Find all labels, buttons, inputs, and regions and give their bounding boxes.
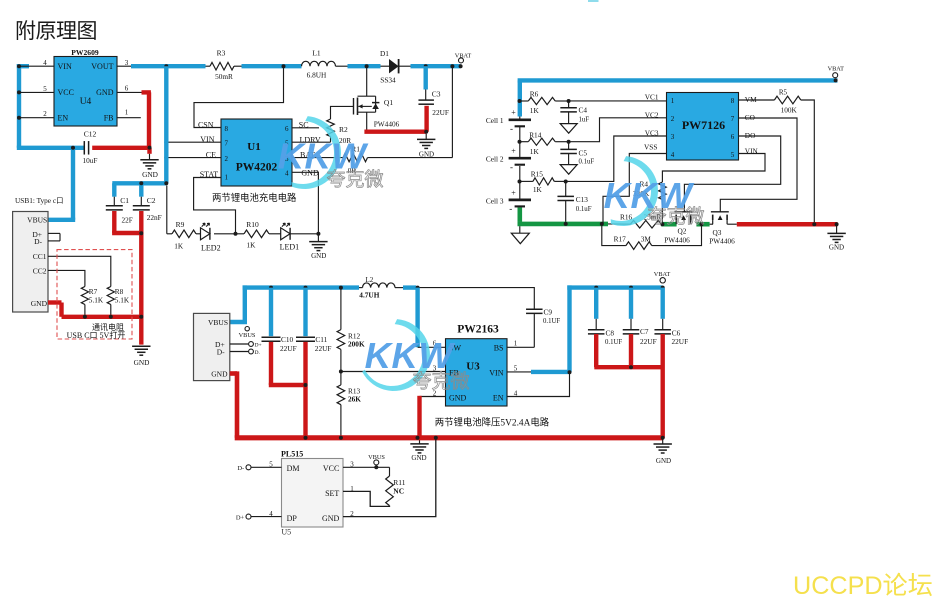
node gnd end: [835, 222, 839, 226]
svg-text:C7: C7: [640, 327, 649, 336]
resistor R13 26K: [337, 372, 361, 438]
resistor R16 25mR: [620, 212, 661, 228]
svg-text:FB: FB: [104, 114, 114, 123]
transistor Q2 PW4406: [664, 212, 692, 245]
svg-text:VC3: VC3: [645, 128, 659, 137]
wire BS stub: [507, 346, 534, 348]
inductor L1 6.8UH: [302, 49, 336, 80]
svg-text:PW2609: PW2609: [71, 48, 99, 57]
wire VBUS vertical left: [17, 64, 85, 220]
capacitor C6 22UF: [654, 288, 688, 438]
resistor R12 200K: [337, 288, 365, 372]
wire STAT route: [194, 178, 236, 234]
node SW tap: [416, 286, 420, 290]
svg-text:3M: 3M: [641, 234, 652, 243]
svg-text:VBUS: VBUS: [368, 454, 385, 461]
svg-text:+: +: [511, 108, 516, 117]
capacitor C12 10uF: [82, 130, 97, 165]
svg-text:U4: U4: [80, 97, 92, 107]
svg-text:GND: GND: [311, 252, 326, 260]
svg-text:6: 6: [125, 84, 129, 92]
svg-text:DP: DP: [287, 514, 298, 523]
node C12 blue tap: [71, 146, 75, 150]
svg-text:10uF: 10uF: [82, 156, 97, 165]
svg-text:夸克微: 夸克微: [647, 206, 704, 228]
wire EN route: [507, 372, 570, 396]
resistor R8 5.1K: [107, 287, 130, 317]
capacitor C11 22UF: [296, 288, 331, 438]
wire VOUT to rail: [117, 65, 131, 67]
svg-text:GND: GND: [656, 457, 671, 465]
node U3 gnd redraw: [416, 436, 420, 440]
node C2 tap: [139, 181, 143, 185]
svg-text:GND: GND: [142, 170, 158, 179]
capacitor C5 0.1uF: [560, 142, 594, 166]
svg-text:22UF: 22UF: [280, 344, 297, 353]
svg-text:5.1K: 5.1K: [115, 296, 130, 305]
node cell1 bottom: [518, 140, 522, 144]
IC U1 PW4202: [221, 119, 292, 186]
svg-text:DM: DM: [287, 464, 300, 473]
node C11 bottom: [304, 436, 308, 440]
wire VC2 route: [569, 118, 667, 142]
wire D+ stub c3: [230, 342, 262, 349]
node C10 tap: [269, 286, 273, 290]
svg-text:VBUS: VBUS: [27, 216, 47, 225]
svg-text:NC: NC: [393, 486, 404, 495]
svg-text:Cell 2: Cell 2: [486, 155, 504, 164]
ground under LED1: [309, 234, 327, 260]
ground circuit2: [827, 224, 845, 251]
wire DM input: [237, 465, 281, 472]
svg-text:22UF: 22UF: [640, 337, 657, 346]
svg-text:USB1: Type c口: USB1: Type c口: [15, 196, 63, 205]
wire green battery minus rail: [518, 222, 737, 227]
svg-text:EN: EN: [58, 114, 69, 123]
svg-text:PW4406: PW4406: [374, 119, 400, 128]
watermark 1 arc: [292, 116, 341, 189]
svg-text:PW7126: PW7126: [682, 118, 725, 132]
svg-text:C5: C5: [579, 149, 588, 158]
resistor R11 NC: [386, 467, 406, 505]
wire SET route: [343, 491, 390, 506]
node VBUS terminal circuit3: [239, 327, 256, 340]
svg-text:0.1uF: 0.1uF: [579, 159, 595, 166]
resistor R10 1K: [236, 220, 281, 249]
node LED1 gnd: [316, 232, 320, 236]
svg-text:L1: L1: [312, 49, 321, 58]
svg-text:R17: R17: [614, 234, 627, 243]
svg-text:1K: 1K: [530, 147, 540, 156]
svg-text:C8: C8: [606, 328, 615, 337]
svg-text:D-: D-: [34, 237, 42, 246]
node C3 gnd junction: [424, 130, 428, 134]
svg-text:8: 8: [731, 97, 735, 105]
svg-text:R7: R7: [89, 287, 98, 296]
svg-text:R9: R9: [176, 220, 185, 229]
node FB junction: [339, 370, 343, 374]
svg-text:CC2: CC2: [33, 266, 47, 275]
svg-text:3: 3: [671, 133, 675, 141]
resistor R6 1K: [520, 89, 569, 115]
IC U3 PW2163: [446, 323, 508, 406]
svg-text:4: 4: [43, 59, 47, 67]
svg-text:VC2: VC2: [645, 110, 659, 119]
ground triangle battery: [511, 226, 529, 244]
box dashed comm resistors: [57, 250, 132, 339]
svg-text:1: 1: [225, 173, 229, 181]
connector VBUS input: [194, 313, 230, 380]
wire SC stub: [292, 127, 319, 129]
capacitor C2 22uF: [133, 196, 162, 222]
wire CC1 route: [48, 256, 111, 286]
svg-text:+: +: [511, 188, 516, 197]
node C6 gnd rail: [661, 436, 665, 440]
svg-text:R8: R8: [115, 287, 124, 296]
svg-text:1K: 1K: [247, 241, 257, 250]
svg-text:U5: U5: [281, 527, 291, 536]
svg-text:R3: R3: [217, 49, 226, 58]
svg-text:22nF: 22nF: [147, 213, 162, 222]
node C11 gnd redraw: [304, 436, 308, 440]
node R5 gnd: [812, 222, 816, 226]
svg-text:7: 7: [225, 139, 229, 147]
node R4 gnd tap: [660, 222, 664, 226]
resistor R2 20R: [292, 106, 354, 144]
svg-text:Q3: Q3: [713, 228, 722, 237]
svg-text:4.7UH: 4.7UH: [359, 290, 379, 299]
wire SW blue drop: [415, 288, 419, 348]
wire LED chain feeder: [167, 186, 172, 234]
svg-text:6.8UH: 6.8UH: [307, 71, 327, 80]
svg-text:PW4202: PW4202: [236, 162, 278, 174]
node VBAT terminal circuit2: [828, 66, 845, 83]
svg-text:C4: C4: [579, 106, 588, 115]
svg-text:22UF: 22UF: [315, 344, 332, 353]
svg-text:VIN: VIN: [200, 135, 214, 144]
resistor R14 1K: [520, 130, 569, 156]
svg-text:两节锂电池降压5V2.4A电路: 两节锂电池降压5V2.4A电路: [435, 417, 550, 429]
svg-text:0.1UF: 0.1UF: [605, 339, 622, 346]
node R13 gnd: [339, 436, 343, 440]
wire rail blue segment 2: [242, 64, 302, 68]
svg-text:1: 1: [125, 109, 129, 117]
svg-text:L2: L2: [366, 276, 374, 284]
capacitor C13 0.1uF: [557, 182, 591, 225]
svg-text:夸克微: 夸克微: [412, 371, 469, 393]
svg-text:D+: D+: [236, 514, 245, 521]
node C13 tap: [564, 180, 568, 184]
svg-text:R14: R14: [529, 130, 542, 139]
svg-text:PW4406: PW4406: [664, 235, 690, 244]
connector USB1 Type-C: [13, 196, 64, 312]
resistor R5 100K: [739, 88, 815, 224]
capacitor C10 22UF: [262, 288, 306, 385]
wire red caps gnd bus: [594, 365, 662, 369]
node R17 right tap: [700, 222, 704, 226]
svg-text:3: 3: [125, 59, 129, 67]
node VIN tap U1: [164, 140, 168, 144]
node C7 gnd: [629, 365, 633, 369]
svg-text:VIN: VIN: [489, 368, 503, 377]
node C8 tap: [594, 286, 598, 290]
svg-text:VBUS: VBUS: [208, 318, 228, 327]
svg-text:D-: D-: [217, 347, 225, 356]
svg-text:C9: C9: [544, 307, 553, 316]
wire red gnd rail circuit2: [737, 222, 838, 227]
node cell2 bottom: [518, 180, 522, 184]
capacitor C9 0.1UF: [526, 307, 560, 347]
node R12 tap: [339, 286, 343, 290]
wire rail blue segment 4: [411, 64, 461, 68]
wire D- stub c3: [230, 349, 261, 356]
svg-text:PW4406: PW4406: [709, 237, 735, 246]
ground under rail c3: [410, 440, 428, 462]
svg-text:USB C口 5V打开: USB C口 5V打开: [67, 330, 126, 340]
svg-text:200K: 200K: [348, 340, 365, 349]
ground triangle C4: [560, 124, 577, 134]
svg-text:CE: CE: [206, 150, 216, 159]
node C5 tap: [567, 140, 571, 144]
svg-text:5: 5: [731, 151, 735, 159]
svg-text:-: -: [509, 203, 512, 213]
wire SW rail to C9: [418, 288, 535, 310]
svg-text:C3: C3: [432, 89, 441, 98]
svg-text:VSS: VSS: [644, 143, 657, 152]
svg-text:R15: R15: [531, 169, 544, 178]
wire D+ D- short bracket: [48, 233, 60, 241]
wire VCC VBUS node: [343, 454, 390, 469]
LED2: [201, 223, 236, 252]
resistor R3 50mR: [206, 49, 242, 81]
wire rail blue segment 3: [336, 65, 381, 67]
wire DP input: [236, 514, 282, 521]
svg-text:R10: R10: [246, 220, 259, 229]
node U5 gnd rail: [434, 436, 438, 440]
svg-text:4: 4: [671, 151, 675, 159]
svg-text:100K: 100K: [781, 105, 798, 114]
battery Cell 1: [486, 108, 531, 133]
svg-text:R5: R5: [779, 88, 788, 96]
svg-text:1: 1: [514, 340, 518, 348]
wire CC2 route: [48, 270, 85, 286]
node R13 gnd redraw: [339, 436, 343, 440]
node U3 gnd rail: [416, 436, 420, 440]
svg-text:D+: D+: [255, 343, 262, 349]
node rail x166: [164, 64, 168, 68]
ground under C3: [417, 134, 435, 159]
svg-text:C2: C2: [147, 196, 156, 205]
wire CO route to Q3 gate: [720, 118, 797, 212]
transistor Q1 PW4406: [354, 66, 400, 130]
svg-text:5.1K: 5.1K: [89, 296, 104, 305]
node BAT return tap: [450, 64, 454, 68]
watermark 2 arc: [611, 156, 658, 226]
svg-text:GND: GND: [829, 244, 844, 252]
node Q1 drain tap: [365, 64, 369, 68]
svg-text:C10: C10: [281, 335, 294, 344]
svg-text:VIN: VIN: [58, 62, 72, 71]
svg-text:R6: R6: [530, 89, 539, 98]
capacitor C7 22UF: [623, 288, 657, 368]
resistor R7 5.1K: [81, 287, 104, 317]
svg-text:1K: 1K: [530, 106, 540, 115]
svg-text:2: 2: [43, 110, 47, 118]
svg-text:8: 8: [225, 125, 229, 133]
node STAT LED junction: [234, 232, 238, 236]
wire VSS route: [603, 154, 667, 224]
ground under U4: [140, 154, 158, 179]
svg-text:夸克微: 夸克微: [326, 169, 383, 191]
svg-text:VBUS: VBUS: [239, 332, 256, 339]
ground triangle C5: [560, 165, 577, 175]
diode D1 SS34: [380, 49, 410, 84]
svg-text:Cell 3: Cell 3: [486, 196, 504, 205]
svg-text:1uF: 1uF: [579, 117, 590, 124]
ground right c3: [654, 438, 672, 465]
wire red Q1 source to C3 gnd: [364, 106, 426, 132]
node C7 tap: [629, 286, 633, 290]
node VIN EN join: [568, 370, 572, 374]
node C11 tap: [304, 286, 308, 290]
svg-text:LED2: LED2: [201, 243, 221, 252]
svg-text:2: 2: [225, 155, 229, 163]
svg-text:SS34: SS34: [380, 76, 396, 85]
svg-text:VBAT: VBAT: [455, 52, 472, 59]
node VBAT terminal circuit1: [455, 52, 472, 68]
wire red bottom rail: [230, 371, 663, 437]
wire VC1 line: [569, 100, 667, 102]
svg-text:D1: D1: [380, 49, 389, 58]
svg-text:PW2163: PW2163: [457, 323, 499, 335]
svg-text:BS: BS: [494, 344, 504, 353]
wire FB line: [341, 371, 446, 373]
transistor Q3 PW4406: [709, 212, 735, 246]
wire U3 gnd red: [420, 396, 446, 438]
svg-text:0.1UF: 0.1UF: [543, 318, 560, 325]
svg-text:R2: R2: [339, 125, 348, 134]
wire VIN blue link: [507, 285, 663, 372]
wire VIN route to R4: [662, 154, 765, 183]
IC U5 PL515: [281, 449, 343, 536]
wire CSN route: [194, 66, 284, 127]
wire VIN route: [166, 141, 221, 143]
watermark 3 arc: [362, 319, 430, 391]
wire red USB gnd: [48, 303, 144, 317]
LED1: [280, 223, 319, 251]
svg-text:PL515: PL515: [281, 449, 303, 458]
svg-text:两节锂电池充电电路: 两节锂电池充电电路: [212, 192, 297, 204]
svg-text:VCC: VCC: [58, 88, 74, 97]
node C10 gnd join: [304, 383, 308, 387]
svg-text:D-: D-: [237, 465, 244, 472]
capacitor C1 22F: [106, 196, 133, 224]
battery Cell 2: [486, 147, 531, 172]
svg-text:C6: C6: [672, 328, 681, 337]
svg-text:GND: GND: [31, 299, 48, 308]
node CSN sense tap: [282, 64, 286, 68]
wire VBUS vertical to C1C2: [112, 66, 166, 197]
node VSS gnd tap: [600, 222, 604, 226]
svg-text:5: 5: [43, 85, 47, 93]
svg-text:7: 7: [731, 115, 735, 123]
svg-text:1K: 1K: [533, 185, 543, 194]
svg-text:附原理图: 附原理图: [15, 19, 97, 43]
ground below C1C2: [132, 346, 150, 367]
svg-text:C13: C13: [576, 195, 589, 204]
svg-text:U1: U1: [247, 141, 260, 153]
svg-text:C11: C11: [315, 335, 327, 344]
resistor R17 3M: [602, 224, 702, 250]
svg-text:SET: SET: [325, 489, 339, 498]
wire battery stack vertical: [518, 80, 522, 222]
capacitor C8 0.1UF: [588, 288, 622, 368]
svg-text:UCCPD论坛: UCCPD论坛: [793, 572, 933, 600]
node C3 tap: [424, 64, 428, 68]
svg-text:CSN: CSN: [198, 120, 214, 129]
svg-text:GND: GND: [134, 358, 150, 367]
capacitor C4 1uF: [560, 101, 589, 124]
svg-text:KKW: KKW: [365, 335, 457, 376]
node R6 tap: [518, 99, 522, 103]
wire U5 gnd route: [343, 438, 436, 517]
svg-text:CC1: CC1: [33, 252, 47, 261]
resistor R9 1K: [172, 220, 201, 251]
wire VBAT rail circuit2: [518, 78, 838, 82]
svg-text:C1: C1: [120, 196, 129, 205]
svg-text:22F: 22F: [122, 215, 133, 224]
svg-text:+: +: [511, 147, 516, 156]
svg-text:0.1uF: 0.1uF: [576, 206, 592, 213]
wire SW stub: [418, 346, 446, 348]
svg-text:-: -: [510, 124, 513, 134]
svg-text:Q2: Q2: [678, 227, 687, 236]
svg-text:LED1: LED1: [280, 243, 300, 252]
node blue corner: [164, 181, 168, 185]
node usb gnd rail: [139, 315, 143, 319]
svg-text:VBAT: VBAT: [654, 271, 671, 278]
node R8 gnd: [109, 315, 113, 319]
svg-text:50mR: 50mR: [215, 72, 233, 81]
svg-text:EN: EN: [493, 394, 504, 403]
battery Cell 3: [486, 188, 531, 213]
svg-text:C12: C12: [84, 130, 97, 139]
wire rail blue segment 1: [131, 64, 206, 68]
svg-text:2: 2: [671, 115, 675, 123]
svg-text:6: 6: [731, 133, 735, 141]
node EN tap: [17, 116, 21, 120]
svg-text:-: -: [510, 162, 513, 172]
node CE tap U1: [164, 156, 168, 160]
wire U4 GND red route: [92, 92, 151, 153]
resistor R4 330K: [633, 179, 666, 224]
svg-text:GND: GND: [96, 88, 114, 97]
wire VBUS blue circuit3: [230, 285, 416, 322]
node R7 gnd: [83, 315, 87, 319]
svg-text:VC1: VC1: [645, 92, 659, 101]
resistor R15 1K: [520, 169, 566, 194]
capacitor C3 22UF: [418, 66, 448, 117]
wire U1 GND pin route: [292, 172, 318, 234]
wire VC3 route: [566, 136, 667, 181]
inductor L2 4.7UH: [359, 276, 403, 300]
svg-text:22UF: 22UF: [672, 337, 689, 346]
svg-text:VCC: VCC: [323, 464, 339, 473]
stray cyan dash top: [588, 0, 599, 2]
svg-text:VBAT: VBAT: [828, 66, 845, 73]
svg-text:22UF: 22UF: [432, 108, 449, 117]
svg-text:Cell 1: Cell 1: [486, 116, 504, 125]
